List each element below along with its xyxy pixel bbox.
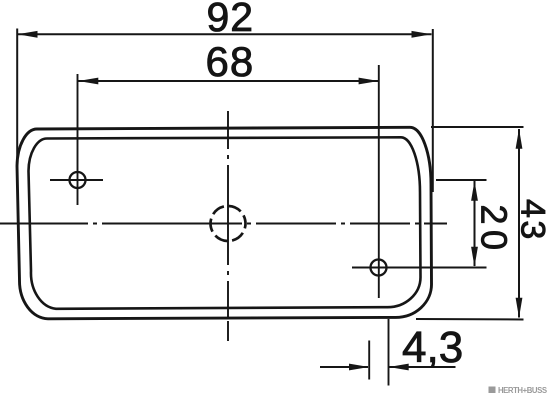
svg-text:20: 20 (474, 205, 515, 256)
center circle (211, 206, 246, 241)
dimension 43 top arrow (516, 129, 523, 149)
dimension 20 top extension line (436, 179, 487, 181)
hole right centerline vertical (also 68 extension) (378, 65, 380, 298)
svg-text:4,3: 4,3 (402, 323, 463, 372)
logo herth+buss (489, 386, 547, 395)
dimension 4,3 left arrow (349, 364, 369, 371)
dimension 4,3 left line (320, 366, 368, 368)
dimension 4,3 right tick (388, 319, 390, 386)
dimension 4,3 right arrow (389, 364, 409, 371)
dimension 92 line (17, 33, 431, 35)
dimension 68 right arrow (359, 78, 379, 85)
dimension 43 top extension line (431, 126, 524, 128)
svg-text:92: 92 (207, 0, 255, 40)
dimension 68 left arrow (78, 78, 98, 85)
horizontal centerline (0, 223, 447, 225)
dimension 43 bottom arrow (516, 298, 523, 318)
dimension 4,3 left tick (368, 341, 370, 380)
hole left cross horizontal (50, 179, 103, 181)
dimension 92 left arrow (18, 31, 38, 38)
vertical centerline (227, 111, 229, 341)
dimension 92 right arrow (412, 31, 432, 38)
hole left centerline vertical (also 68 extension) (77, 74, 79, 205)
dimension 20 bottom arrow (471, 247, 478, 267)
svg-text:68: 68 (206, 38, 255, 85)
body inner outline (29, 137, 421, 309)
hole right cross horizontal (also 20 bottom extension) (352, 267, 487, 269)
hole right circle (371, 260, 387, 276)
dimension 20 line (474, 181, 476, 266)
dimension 68 line (78, 80, 379, 82)
dimension 4,3 right line (389, 366, 456, 368)
body outer outline (17, 127, 432, 318)
dimension 92 left extension line (16, 29, 18, 172)
dimension 43 bottom extension line (416, 318, 524, 321)
dimension 43 line (518, 129, 520, 318)
svg-text:HERTH+BUSS: HERTH+BUSS (498, 386, 547, 395)
svg-text:43: 43 (514, 199, 552, 242)
dimension 92 right extension line (432, 29, 434, 192)
dimension 20 top arrow (471, 181, 478, 201)
hole left circle (70, 172, 86, 188)
